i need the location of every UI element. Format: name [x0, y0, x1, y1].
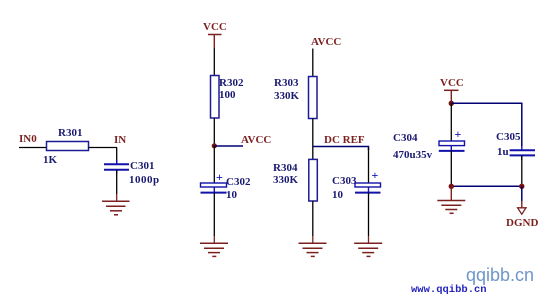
ground under R304 [299, 243, 327, 256]
svg-text:R302: R302 [219, 77, 244, 89]
svg-text:C304: C304 [393, 132, 418, 144]
wire bottom rail [451, 185, 522, 187]
svg-text:+: + [372, 168, 379, 182]
wire C304 to bottom node [450, 151, 452, 186]
svg-text:C305: C305 [496, 131, 521, 143]
ground under C302 [200, 243, 228, 256]
svg-text:DC REF: DC REF [324, 134, 365, 146]
wire C302 to ground [213, 193, 215, 236]
svg-text:www.qqibb.cn: www.qqibb.cn [411, 284, 487, 296]
resistor R301 [47, 142, 89, 151]
capacitor C303 polarized [355, 168, 381, 193]
wire R301 to node IN [89, 147, 118, 149]
capacitor C302 polarized [201, 170, 227, 193]
power port DGND arrow [518, 208, 526, 214]
resistor R302 [211, 76, 220, 119]
wire node IN down to C301 [116, 148, 118, 165]
resistor R304 [309, 159, 318, 201]
wire DC REF to C303 [368, 148, 370, 183]
svg-text:C301: C301 [130, 160, 154, 172]
svg-text:100: 100 [219, 89, 236, 101]
capacitor C304 polarized [439, 127, 465, 151]
ground under C301 [102, 201, 130, 215]
wire C305 to bottom node [521, 155, 523, 186]
svg-text:DGND: DGND [506, 217, 538, 229]
svg-text:470u35v: 470u35v [393, 149, 433, 161]
svg-text:IN0: IN0 [19, 133, 37, 145]
wire VCC to R302 [213, 48, 215, 76]
wire node AVCC to C302 [213, 146, 215, 183]
resistor R303 [309, 77, 318, 119]
wire to DGND port [521, 186, 523, 201]
wire DC REF branch [313, 147, 369, 151]
capacitor C301 [104, 160, 129, 174]
svg-text:330K: 330K [273, 174, 299, 186]
svg-text:AVCC: AVCC [311, 36, 341, 48]
svg-text:VCC: VCC [203, 21, 227, 33]
wire C301 to ground [116, 170, 118, 194]
svg-text:1K: 1K [43, 154, 58, 166]
wire to ground right block [450, 186, 452, 200]
svg-text:qqibb.cn: qqibb.cn [466, 265, 534, 285]
wire C303 to ground [368, 193, 370, 236]
svg-text:1u: 1u [497, 146, 509, 158]
wire IN0 to R301 [19, 147, 47, 149]
svg-text:1000p: 1000p [129, 174, 160, 186]
junction bottom right [519, 184, 524, 189]
wire stub AVCC [214, 145, 243, 147]
svg-text:C302: C302 [226, 176, 251, 188]
svg-text:VCC: VCC [440, 77, 464, 89]
svg-text:R304: R304 [273, 162, 298, 174]
wire AVCC to R303 [312, 49, 314, 78]
svg-text:10: 10 [332, 189, 344, 201]
svg-text:IN: IN [114, 134, 126, 146]
svg-text:+: + [455, 127, 462, 141]
junction bottom left [449, 184, 454, 189]
wire VCC node to C304 [450, 103, 452, 141]
wire R304 to ground [312, 201, 314, 236]
svg-text:10: 10 [226, 189, 238, 201]
junction dot node AVCC [212, 143, 217, 148]
wire R302 to node AVCC [213, 118, 215, 146]
capacitor C305 [510, 146, 535, 160]
svg-text:C303: C303 [332, 175, 357, 187]
svg-text:+: + [216, 170, 223, 184]
svg-text:R303: R303 [274, 77, 299, 89]
junction node VCC right [449, 101, 454, 106]
svg-text:AVCC: AVCC [241, 134, 271, 146]
ground under C303 [354, 243, 382, 256]
wire R303 to node DC REF [312, 119, 314, 161]
ground under C304 [437, 201, 465, 214]
wire VCC node to C305 branch [451, 103, 522, 146]
svg-text:R301: R301 [58, 127, 82, 139]
svg-text:330K: 330K [274, 90, 300, 102]
